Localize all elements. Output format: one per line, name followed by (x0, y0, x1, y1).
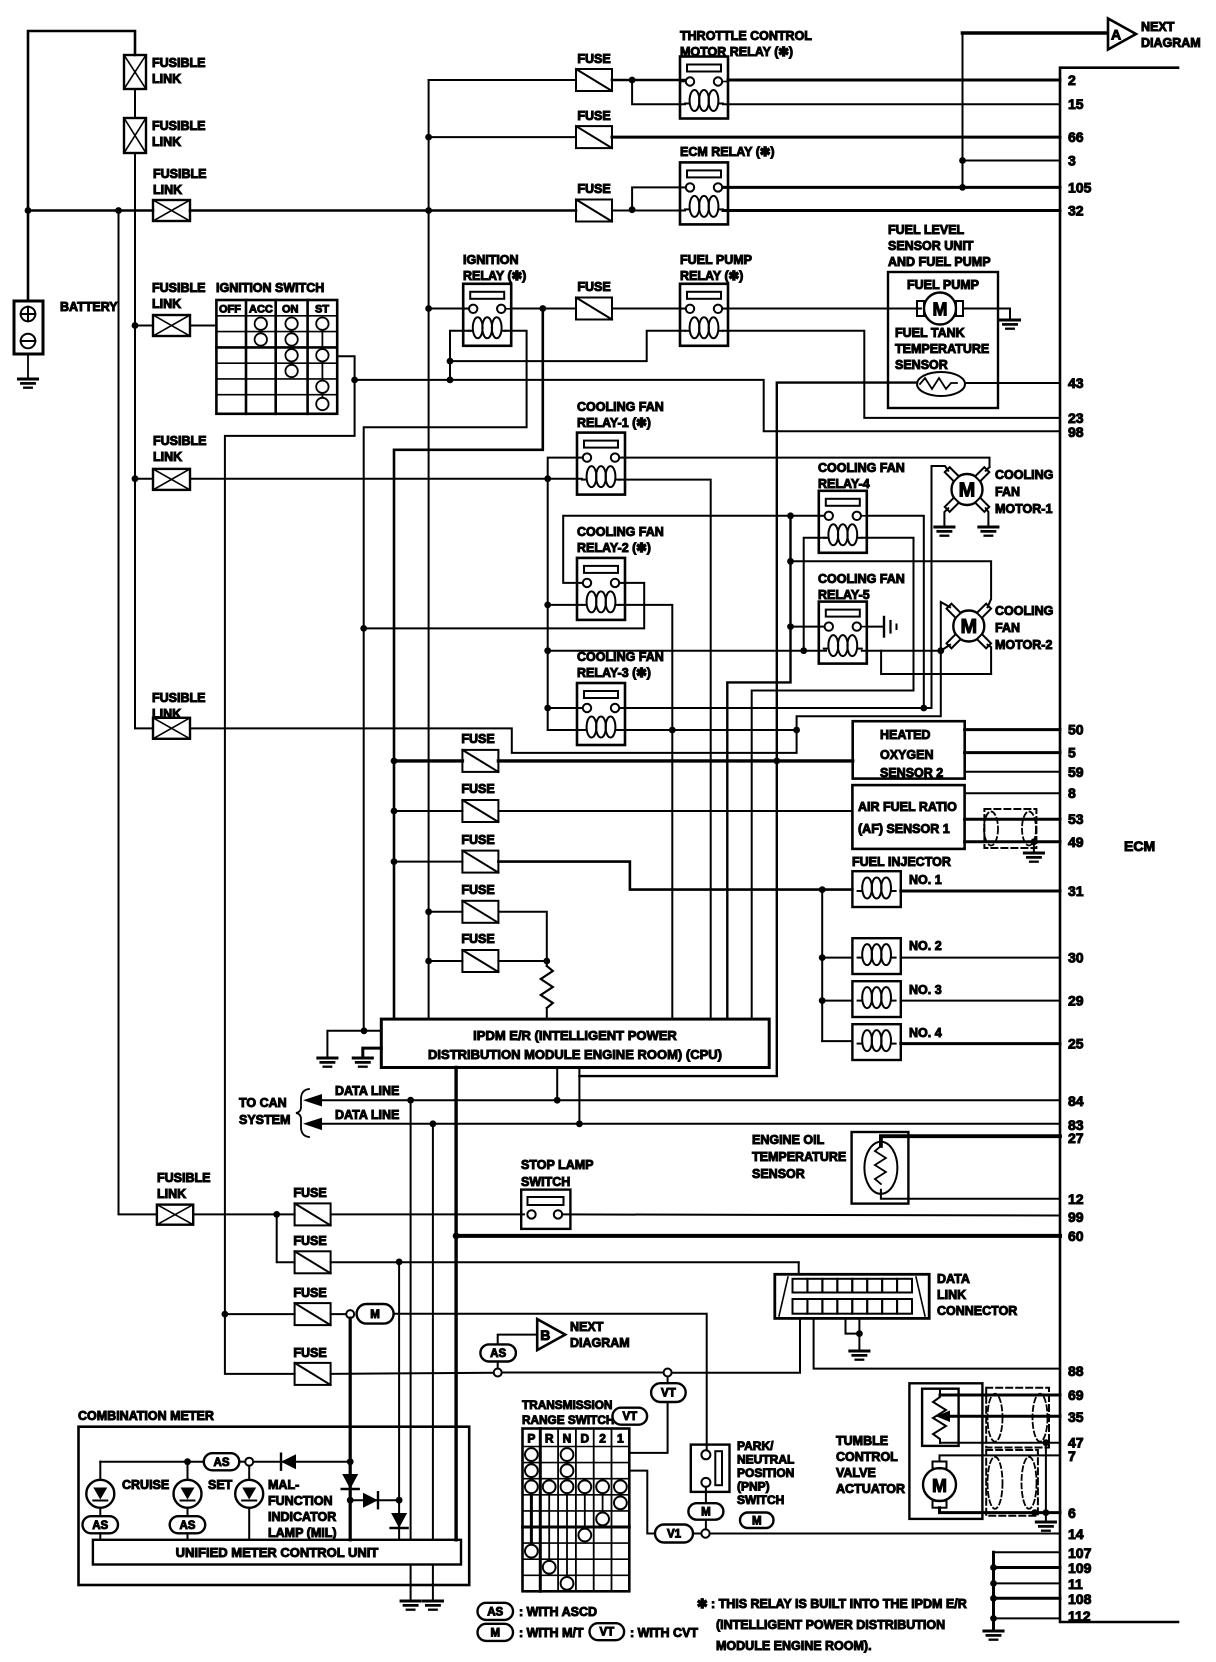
wire relay4 right pin (867, 516, 924, 708)
node bus429 ign (425, 305, 432, 312)
node dl2 b (576, 1120, 583, 1127)
node M fuse feed (222, 1311, 229, 1318)
svg-text:NO. 2: NO. 2 (909, 939, 942, 953)
svg-text:CONTROL: CONTROL (836, 1450, 898, 1464)
wire pin88 line (814, 1319, 1060, 1369)
wire pin99 (562, 1214, 1060, 1215)
fuel injector no2 (852, 938, 900, 974)
svg-text:CRUISE: CRUISE (122, 1478, 169, 1492)
svg-text:D: D (580, 1432, 589, 1446)
wire main bus y210 right (190, 209, 576, 212)
next diagram arrow A (1108, 19, 1136, 50)
svg-text:HEATED: HEATED (880, 728, 930, 742)
svg-text:SYSTEM: SYSTEM (239, 1113, 290, 1127)
svg-text:2: 2 (599, 1432, 606, 1446)
node relay1 coil feed (544, 475, 551, 482)
svg-text:2: 2 (1068, 72, 1076, 88)
fusible link FL3 (153, 200, 190, 221)
fuse F3 (462, 851, 498, 873)
wire pin25 (901, 1042, 1060, 1045)
wire motor2 UL (941, 602, 950, 651)
svg-text:: WITH M/T: : WITH M/T (519, 1626, 584, 1640)
unified meter control unit (93, 1540, 461, 1565)
svg-text:(PNP): (PNP) (737, 1480, 770, 1494)
node shield1 drain (1043, 1439, 1050, 1446)
wire meter can1 (410, 1100, 412, 1540)
node g112 (990, 1615, 997, 1622)
node fuse1 feed (391, 758, 398, 765)
node left bus2 (115, 207, 122, 214)
svg-text:M: M (960, 616, 977, 638)
ground AF shield (1024, 852, 1043, 855)
node shield2 drain (1031, 1509, 1038, 1516)
svg-text:M: M (933, 300, 948, 320)
svg-text:IPDM E/R (INTELLIGENT POWER: IPDM E/R (INTELLIGENT POWER (473, 1028, 677, 1043)
svg-text:11: 11 (1068, 1576, 1083, 1592)
svg-text:PARK/: PARK/ (737, 1439, 774, 1453)
svg-text:14: 14 (1068, 1526, 1084, 1542)
wire shield ground (1033, 842, 1035, 853)
svg-text:M: M (370, 1309, 380, 1321)
wire VT to range switch (629, 1402, 667, 1453)
node fuse5 feed (425, 958, 432, 965)
svg-text:FUSE: FUSE (293, 1346, 326, 1360)
wire FL6 output to relay1 coil (190, 478, 582, 480)
shield tumble 1 (986, 1388, 1049, 1448)
wire motor1 LR ground (986, 508, 989, 527)
wire pin50 (965, 728, 1060, 731)
ground ECM (984, 1630, 1003, 1633)
node relay4 left pin feed (787, 512, 794, 519)
svg-text:FAN: FAN (995, 485, 1020, 499)
wire motor2 LL (941, 645, 950, 651)
wire AS to B arrow (498, 1335, 535, 1345)
svg-text:(AF) SENSOR 1: (AF) SENSOR 1 (858, 822, 950, 836)
wire pin15 line (723, 103, 1060, 105)
wire FL7 output (190, 651, 941, 753)
svg-text:49: 49 (1068, 834, 1084, 850)
svg-text:105: 105 (1068, 179, 1092, 195)
svg-text:88: 88 (1068, 1363, 1084, 1379)
MIL lamp (248, 1466, 250, 1480)
svg-text:ENGINE OIL: ENGINE OIL (752, 1133, 825, 1147)
wire data line 1 (318, 1099, 1060, 1101)
wire relay3 right pin (621, 707, 932, 709)
diode D3 (363, 1493, 378, 1508)
svg-text:: WITH CVT: : WITH CVT (630, 1626, 698, 1640)
svg-text:TUMBLE: TUMBLE (836, 1434, 888, 1448)
svg-text:SENSOR: SENSOR (895, 358, 948, 372)
svg-text:NO. 4: NO. 4 (909, 1026, 942, 1040)
wire pin109 (994, 1566, 1061, 1569)
svg-text:R: R (545, 1432, 554, 1446)
svg-text:31: 31 (1068, 883, 1084, 899)
svg-text:53: 53 (1068, 811, 1084, 827)
oval VT legend (590, 1623, 625, 1640)
svg-text:COOLING FAN: COOLING FAN (577, 650, 664, 664)
ground DLC (850, 1350, 869, 1353)
wire IPDM out thick (454, 1068, 457, 1236)
svg-text:V1: V1 (667, 1529, 682, 1541)
svg-text:108: 108 (1068, 1591, 1092, 1607)
wire lamp bus (100, 1461, 204, 1463)
wire pin35 wiper (947, 1415, 1060, 1418)
wire pin105 line (723, 186, 1060, 189)
wire fuel pump coil right (723, 331, 1060, 418)
wire fuse9 out (331, 1373, 494, 1374)
svg-text:RELAY-2 (✱): RELAY-2 (✱) (577, 541, 651, 555)
ground actuator (1036, 1521, 1055, 1524)
svg-text:12: 12 (1068, 1191, 1084, 1207)
wire pin60 line (456, 1234, 1060, 1238)
svg-text:43: 43 (1068, 375, 1084, 391)
wire ignition coil right branch (364, 331, 527, 1031)
fusible link FL1 (124, 55, 146, 89)
wire pin53 (965, 818, 1060, 821)
svg-text:LINK: LINK (152, 72, 181, 86)
next diagram arrow B (537, 1319, 565, 1350)
wire relay2 left pin (563, 516, 829, 583)
svg-text:RELAY-4: RELAY-4 (818, 477, 870, 491)
fuse F2 (462, 800, 498, 822)
wire motor2 UR (791, 561, 992, 607)
wire M line to PNP (394, 1314, 707, 1450)
wire fuse3 line (394, 861, 462, 863)
wire shield drain (1045, 1443, 1047, 1513)
svg-text:ECM: ECM (1124, 838, 1155, 854)
svg-text:FUSE: FUSE (577, 280, 610, 294)
wire A-line vertical (962, 33, 964, 187)
fuse F-C (576, 200, 612, 222)
wire MIL power bus (349, 1318, 352, 1540)
wire sensor feed y382 (777, 383, 917, 761)
wire IPDM right bypass (579, 761, 776, 1076)
wire meter ground1 (410, 1565, 412, 1602)
svg-text:ON: ON (282, 304, 299, 316)
node relay3 coil link (793, 727, 800, 734)
wire relay1 coil right (619, 480, 711, 1020)
wire relay5 coil right (862, 650, 941, 652)
wire pin112 (994, 1617, 1061, 1619)
wire fuse7 branch (277, 1214, 295, 1262)
wire FL row4 feed (135, 727, 153, 729)
node relay2 coil feed (544, 602, 551, 609)
svg-text:SENSOR 2: SENSOR 2 (880, 766, 943, 780)
node ignition feed (132, 322, 139, 329)
node pin60 junction (453, 1233, 460, 1240)
fusible link FL4 (153, 315, 190, 336)
svg-text:DISTRIBUTION MODULE ENGINE ROO: DISTRIBUTION MODULE ENGINE ROOM) (CPU) (428, 1047, 722, 1062)
svg-text:M: M (701, 1506, 711, 1518)
node injector bus 2 (819, 954, 826, 961)
shield tumble 2 (986, 1450, 1038, 1516)
node relay4 coil drop (800, 647, 807, 654)
node g108 (990, 1595, 997, 1602)
svg-text:FUEL LEVEL: FUEL LEVEL (888, 223, 965, 237)
wire ecm ground bus (992, 1552, 995, 1631)
svg-text:TEMPERATURE: TEMPERATURE (895, 342, 989, 356)
svg-text:FUSIBLE: FUSIBLE (153, 167, 206, 181)
node battery bus (25, 207, 32, 214)
fuel pump motor M (924, 293, 956, 325)
svg-text:AS: AS (179, 1520, 195, 1532)
node pin105 junction (959, 184, 966, 191)
wire injector bus (821, 890, 823, 1042)
svg-text:FUSIBLE: FUSIBLE (152, 119, 205, 133)
svg-text:IGNITION SWITCH: IGNITION SWITCH (216, 281, 324, 295)
svg-text:FUSE: FUSE (293, 1186, 326, 1200)
svg-text:FUSIBLE: FUSIBLE (153, 434, 206, 448)
svg-text:FAN: FAN (995, 621, 1020, 635)
svg-text:COOLING FAN: COOLING FAN (577, 525, 664, 539)
wire DLC riser (798, 1262, 800, 1280)
svg-text:VT: VT (661, 1388, 676, 1400)
wire fuse5 out (498, 960, 546, 962)
oval AS cruise (83, 1516, 119, 1533)
svg-text:MOTOR-2: MOTOR-2 (995, 638, 1052, 652)
svg-text:AIR FUEL RATIO: AIR FUEL RATIO (858, 800, 957, 814)
svg-text:DATA LINE: DATA LINE (335, 1084, 399, 1098)
fuse F6 (295, 1203, 331, 1225)
fuel injector no4 (852, 1024, 900, 1060)
svg-text:UNIFIED METER CONTROL UNIT: UNIFIED METER CONTROL UNIT (176, 1545, 379, 1560)
wire pin6 (940, 1508, 1061, 1513)
svg-text:FUSE: FUSE (293, 1286, 326, 1300)
fuse F-B (576, 126, 612, 148)
wire pin108 (994, 1597, 1061, 1600)
wire relay45 pin bus to IPDM (727, 516, 790, 1019)
svg-text:7: 7 (1068, 1448, 1076, 1464)
wire ignition relay right pin to fuse D (511, 308, 576, 310)
cruise lamp (99, 1462, 101, 1480)
ground IPDM1 (318, 1057, 337, 1060)
actuator resistor box (922, 1389, 959, 1446)
wire main bus y210 (28, 209, 153, 212)
svg-text:DATA LINE: DATA LINE (335, 1108, 399, 1122)
wire data line 2 (318, 1123, 1060, 1125)
wire ignition switch output (225, 356, 355, 1314)
wire coil5 riser to motor2 (881, 651, 991, 674)
svg-text:FUSE: FUSE (577, 182, 610, 196)
svg-text:COOLING FAN: COOLING FAN (577, 400, 664, 414)
wire ign coil to fuel pump coil (450, 331, 685, 361)
svg-text:LINK: LINK (157, 1187, 186, 1201)
wire relay4 coil right to IPDM (752, 538, 914, 1019)
wire fuse A feed (429, 79, 576, 81)
svg-text:COOLING: COOLING (995, 468, 1053, 482)
svg-text:LINK: LINK (153, 450, 182, 464)
wire relay2 coil right (619, 605, 672, 1019)
shield AF sensor (984, 809, 1036, 848)
battery B1 (14, 301, 43, 354)
wire battery top (28, 31, 135, 301)
svg-text:RANGE SWITCH: RANGE SWITCH (522, 1413, 614, 1427)
node FL row3 feed (132, 475, 139, 482)
fuel injector no1 (852, 871, 900, 907)
svg-text:30: 30 (1068, 950, 1084, 966)
wire ECM relay left pin (632, 187, 685, 209)
wire relay coil left (632, 80, 685, 104)
wire motor2 LR (988, 645, 992, 674)
wire pin11 (994, 1582, 1061, 1584)
node fuse4 feed (425, 908, 432, 915)
svg-text:FUSE: FUSE (461, 732, 494, 746)
svg-text:LINK: LINK (152, 297, 181, 311)
wire pin3 stub (963, 160, 1061, 162)
svg-text:VALVE: VALVE (836, 1466, 876, 1480)
wire fuse5 line (429, 960, 463, 962)
oval AS1 (480, 1344, 516, 1361)
wire injector2 feed (822, 957, 852, 959)
svg-text:RELAY-5: RELAY-5 (818, 588, 870, 602)
wire injector4 feed (822, 1040, 852, 1042)
oval AS top (204, 1453, 240, 1470)
fuse F1 (462, 750, 498, 772)
svg-text:3: 3 (1068, 153, 1076, 169)
svg-text:VT: VT (622, 1411, 637, 1423)
svg-text:N: N (563, 1432, 572, 1446)
svg-text:RELAY (✱): RELAY (✱) (680, 269, 743, 283)
wire relay1 left pin (548, 458, 581, 730)
svg-text:: WITH ASCD: : WITH ASCD (519, 1605, 597, 1619)
svg-text:M: M (959, 480, 976, 502)
svg-text:M: M (490, 1627, 500, 1639)
wire FL6 feed (135, 478, 153, 480)
wire pin66 line (612, 136, 1060, 139)
ground relay5 (883, 617, 885, 637)
svg-text:CONNECTOR: CONNECTOR (937, 1304, 1017, 1318)
wire fuse1 out to HO2S (498, 759, 852, 762)
svg-text:DIAGRAM: DIAGRAM (1141, 36, 1201, 50)
svg-text:✱ : THIS RELAY IS BUILT INTO T: ✱ : THIS RELAY IS BUILT INTO THE IPDM E/… (697, 1597, 967, 1611)
wire left bus x135 (134, 153, 136, 326)
wire IPDM left in (364, 1030, 381, 1032)
node fuse2 feed (391, 808, 398, 815)
wire fuse B feed (429, 136, 576, 138)
svg-text:COMBINATION METER: COMBINATION METER (78, 1409, 214, 1423)
svg-text:COOLING FAN: COOLING FAN (818, 572, 905, 586)
svg-text:MODULE ENGINE ROOM).: MODULE ENGINE ROOM). (716, 1639, 872, 1653)
fuse F8 (295, 1303, 331, 1325)
svg-text:23: 23 (1068, 410, 1084, 426)
node ign coil branch (447, 358, 454, 365)
diode D4 (391, 1513, 407, 1528)
node dl2 a (430, 1120, 437, 1127)
node relay3 left pin (544, 705, 551, 712)
fuse F4 (462, 901, 498, 923)
svg-text:99: 99 (1068, 1209, 1084, 1225)
svg-text:15: 15 (1068, 96, 1084, 112)
svg-text:FUSE: FUSE (577, 109, 610, 123)
wire pin49 (965, 840, 1060, 843)
svg-text:P: P (527, 1432, 535, 1446)
node fuel pump fuse feed (539, 305, 546, 312)
svg-text:SWITCH: SWITCH (521, 1175, 570, 1189)
wire relay2 coil left (548, 604, 582, 606)
ground IPDM2 (353, 1057, 372, 1060)
node fuse3 feed (391, 858, 398, 865)
svg-text:SWITCH: SWITCH (737, 1493, 784, 1507)
wire fuse8 out (331, 1313, 346, 1315)
wire FL4 to ignition switch (190, 325, 216, 327)
wire relay1 right pin to motor1 (621, 458, 990, 467)
node motor2 coil5 (937, 647, 944, 654)
wire relay3 coil right (619, 729, 797, 731)
svg-text:TO CAN: TO CAN (239, 1096, 287, 1110)
node dl1 b (554, 1097, 561, 1104)
wire pin59 (965, 771, 1060, 773)
connector circle V1 (701, 1529, 709, 1537)
oval M2 (688, 1503, 723, 1520)
wire bus x135 down (134, 326, 136, 729)
node relay5 left pin (787, 623, 794, 630)
wire ignition coil left branch (450, 331, 470, 380)
svg-text:69: 69 (1068, 1387, 1084, 1403)
oval AS legend (478, 1603, 514, 1620)
wire relay3 coil left (548, 729, 582, 731)
wire fuse2 out to AF sensor (498, 810, 852, 812)
svg-text:66: 66 (1068, 129, 1084, 145)
svg-text:VT: VT (599, 1627, 614, 1639)
wire ignition bus down (394, 309, 543, 1020)
wire IPDM out dataline1 (556, 1068, 558, 1101)
svg-text:M: M (752, 1515, 762, 1527)
heated oxygen sensor 2 (853, 721, 965, 778)
wire motor1 LL ground (944, 508, 948, 527)
svg-text:MOTOR-1: MOTOR-1 (995, 502, 1052, 516)
svg-text:1: 1 (617, 1432, 624, 1446)
svg-text:DATA: DATA (937, 1272, 970, 1286)
svg-text:FUSE: FUSE (461, 883, 494, 897)
svg-text:27: 27 (1068, 1130, 1084, 1146)
resistor R1 (541, 966, 553, 1008)
svg-text:FUSE: FUSE (461, 932, 494, 946)
diode D1 (281, 1454, 296, 1469)
wire ignition feed (135, 325, 153, 327)
svg-text:LINK: LINK (153, 183, 182, 197)
node MIL branch (396, 1259, 403, 1266)
svg-text:NO. 3: NO. 3 (909, 983, 942, 997)
svg-text:ST: ST (315, 304, 329, 316)
svg-text:RELAY-1 (✱): RELAY-1 (✱) (577, 416, 651, 430)
node IPDM left feed (361, 1027, 368, 1034)
node shield gnd (1043, 1509, 1050, 1516)
fuse F7 (295, 1251, 331, 1273)
node shield drain (1031, 838, 1038, 845)
node injector bus 1 (819, 886, 826, 893)
svg-text:TRANSMISSION: TRANSMISSION (522, 1398, 612, 1412)
svg-text:FUSE: FUSE (461, 782, 494, 796)
svg-text:32: 32 (1068, 203, 1084, 219)
svg-text:FUEL TANK: FUEL TANK (895, 326, 965, 340)
wire pin107 (994, 1551, 1061, 1553)
fuel tank temperature sensor (917, 372, 965, 396)
park neutral position switch (691, 1445, 730, 1492)
svg-text:B: B (540, 1327, 550, 1343)
wire pin69 (939, 1389, 941, 1393)
node injector bus 3 (819, 997, 826, 1004)
wire fuse2 line (394, 810, 462, 812)
node ign coil sensor line (447, 377, 454, 384)
svg-text:OFF: OFF (219, 304, 241, 316)
wire pin8 (965, 792, 1060, 794)
svg-text:SENSOR: SENSOR (752, 1167, 805, 1181)
svg-text:FUEL PUMP: FUEL PUMP (907, 278, 979, 292)
svg-text:NEXT: NEXT (1141, 20, 1175, 34)
node g11 (990, 1580, 997, 1587)
svg-text:AS: AS (487, 1606, 503, 1618)
svg-text:OXYGEN: OXYGEN (880, 748, 934, 762)
